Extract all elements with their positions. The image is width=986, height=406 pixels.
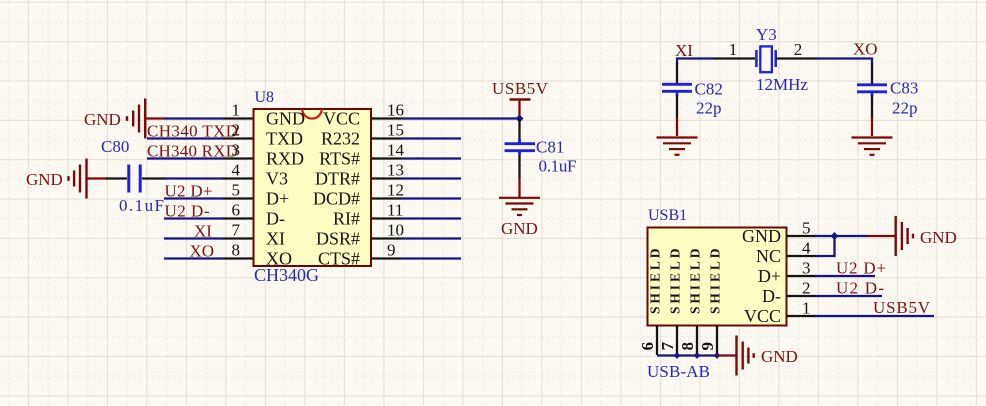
pin 9 stub of U8 <box>371 257 401 259</box>
svg-text:7: 7 <box>658 342 677 351</box>
junction at USB5V node <box>516 115 524 123</box>
svg-text:22p: 22p <box>696 99 722 118</box>
svg-text:16: 16 <box>387 101 404 120</box>
pin 8 stub of USB1 (bottom) <box>696 326 698 356</box>
svg-text:4: 4 <box>802 239 811 258</box>
svg-text:1: 1 <box>232 101 241 120</box>
svg-text:4: 4 <box>232 161 241 180</box>
svg-text:0.1uF: 0.1uF <box>539 157 577 176</box>
ground GND (C83) <box>852 138 893 155</box>
svg-text:GND: GND <box>266 109 305 129</box>
pin 9 stub of USB1 (bottom) <box>716 326 718 356</box>
svg-text:15: 15 <box>387 121 404 140</box>
svg-text:0.1uF: 0.1uF <box>119 196 164 215</box>
wire pin3 (D+) <box>815 275 875 277</box>
svg-text:2: 2 <box>232 121 241 140</box>
wire ground lead to C80 <box>87 177 108 179</box>
svg-text:GND: GND <box>84 110 121 129</box>
wire pin16 to USB5V node <box>401 117 520 119</box>
pin 1 stub of USB1 <box>787 315 817 317</box>
svg-text:XO: XO <box>266 249 292 269</box>
svg-text:U2 D+: U2 D+ <box>165 182 213 201</box>
svg-text:RXD: RXD <box>266 149 304 169</box>
svg-text:TXD: TXD <box>266 129 303 149</box>
svg-text:D+: D+ <box>758 266 781 286</box>
pin 1 of Y3 <box>714 57 755 59</box>
svg-text:DSR#: DSR# <box>316 229 360 249</box>
junction at pin9 <box>714 352 721 359</box>
svg-text:XI: XI <box>675 41 693 60</box>
pin 4 stub of USB1 <box>787 255 817 257</box>
svg-text:GND: GND <box>26 170 63 189</box>
svg-text:Y3: Y3 <box>756 25 777 44</box>
wire C82 top pin <box>676 63 678 84</box>
wire ground lead (C83) <box>871 117 873 136</box>
svg-text:R232: R232 <box>321 129 360 149</box>
wire pin8 net <box>164 257 224 259</box>
svg-text:CTS#: CTS# <box>318 249 360 269</box>
svg-text:V3: V3 <box>266 169 288 189</box>
svg-text:C81: C81 <box>536 138 564 157</box>
connector USB1 body <box>648 228 787 326</box>
capacitor C80 <box>129 165 140 193</box>
wire XI corner vertical <box>676 58 678 65</box>
wire XO corner vertical <box>871 58 873 65</box>
svg-text:C80: C80 <box>101 137 129 156</box>
svg-text:VCC: VCC <box>323 109 360 129</box>
wire C80 left pin <box>106 177 127 179</box>
svg-text:5: 5 <box>232 181 241 200</box>
pin numbers 16-9 (right of U8) <box>387 101 405 260</box>
U8 right pin names <box>313 109 360 269</box>
svg-text:7: 7 <box>232 221 241 240</box>
wire ground lead (shield) <box>717 354 736 356</box>
ground GND (C82) <box>657 138 698 155</box>
wire pin4 horizontal <box>815 255 836 257</box>
wire node to C81 <box>518 119 520 140</box>
svg-text:SHIELD: SHIELD <box>668 246 683 314</box>
wire C83 to ground <box>871 96 873 119</box>
wire pin11 <box>401 217 461 219</box>
svg-text:DTR#: DTR# <box>315 169 360 189</box>
svg-text:1: 1 <box>802 299 811 318</box>
USB1 right pin names <box>742 226 781 326</box>
wire C81 to ground <box>518 155 520 178</box>
svg-text:3: 3 <box>802 259 811 278</box>
wire pin3 net <box>147 157 224 159</box>
svg-text:D+: D+ <box>266 189 289 209</box>
wire pin2 net <box>147 137 224 139</box>
svg-text:GND: GND <box>761 347 798 366</box>
svg-text:13: 13 <box>387 161 404 180</box>
pin 2 stub of U8 <box>224 137 254 139</box>
ground GND (shield) <box>737 336 754 376</box>
power port USB5V bar <box>510 98 531 101</box>
pin 1 stub of U8 <box>224 117 254 119</box>
svg-text:XI: XI <box>266 229 285 249</box>
svg-text:GND: GND <box>920 228 957 247</box>
pin numbers 1-8 (left of U8) <box>232 101 241 260</box>
svg-text:USB5V: USB5V <box>492 79 549 98</box>
capacitor C81 <box>505 139 536 155</box>
ground GND (C80, mid-left) <box>69 159 87 199</box>
svg-text:GND: GND <box>501 219 538 238</box>
pin 4 stub of U8 <box>224 177 254 179</box>
wire ground lead to pin1 <box>145 117 166 119</box>
wire C80 right pin <box>142 177 166 179</box>
svg-text:2: 2 <box>794 40 803 59</box>
svg-text:D-: D- <box>266 209 285 229</box>
wire USB5V lead <box>518 100 520 120</box>
wire pin14 <box>401 157 461 159</box>
pin 6 stub of USB1 (bottom) <box>656 326 658 356</box>
svg-text:VCC: VCC <box>744 306 781 326</box>
wire pin12 <box>401 197 461 199</box>
IC U8 body <box>254 109 372 266</box>
svg-text:11: 11 <box>387 201 403 220</box>
svg-text:12: 12 <box>387 181 404 200</box>
svg-text:NC: NC <box>756 246 781 266</box>
pin 12 stub of U8 <box>371 197 401 199</box>
wire pin1 net <box>165 117 224 119</box>
svg-text:RTS#: RTS# <box>319 149 360 169</box>
svg-text:GND: GND <box>742 226 781 246</box>
pin numbers 5-1 (right of USB1) <box>802 219 811 318</box>
svg-text:8: 8 <box>678 342 697 351</box>
pin 13 stub of U8 <box>371 177 401 179</box>
svg-text:USB-AB: USB-AB <box>647 362 710 381</box>
svg-text:10: 10 <box>387 221 404 240</box>
svg-text:XI: XI <box>194 222 212 241</box>
svg-text:DCD#: DCD# <box>313 189 360 209</box>
wire ground lead (C81) <box>518 177 520 197</box>
pin 2 stub of USB1 <box>787 295 817 297</box>
pin 3 stub of USB1 <box>787 275 817 277</box>
svg-text:C83: C83 <box>890 79 918 98</box>
pin 2 of Y3 <box>777 57 818 59</box>
wire pin1 (VCC) <box>815 315 934 317</box>
pin 5 stub of U8 <box>224 197 254 199</box>
wire pin10 <box>401 237 461 239</box>
pin 15 stub of U8 <box>371 137 401 139</box>
red arc notch on U8 <box>302 109 322 119</box>
svg-text:C82: C82 <box>695 80 723 99</box>
wire C83 top pin <box>871 63 873 84</box>
svg-text:12MHz: 12MHz <box>756 75 808 94</box>
svg-text:SHIELD: SHIELD <box>648 246 663 314</box>
pin 8 stub of U8 <box>224 257 254 259</box>
svg-text:SHIELD: SHIELD <box>688 246 703 314</box>
wire pin5 to ground <box>815 235 868 237</box>
wire pin6 net <box>164 217 224 219</box>
svg-text:9: 9 <box>387 241 396 260</box>
wire C82 to ground <box>676 95 678 118</box>
crystal Y3 <box>756 46 775 72</box>
pin 14 stub of U8 <box>371 157 401 159</box>
wire ground lead (C82) <box>676 117 678 136</box>
wire ground lead (pin5) <box>867 235 895 237</box>
svg-text:8: 8 <box>232 241 241 260</box>
pin 3 stub of U8 <box>224 157 254 159</box>
pin 10 stub of U8 <box>371 237 401 239</box>
svg-text:5: 5 <box>802 219 811 238</box>
ground GND (C81) <box>499 198 540 215</box>
svg-text:6: 6 <box>232 201 241 220</box>
svg-text:22p: 22p <box>892 99 918 118</box>
wire pin4 vertical to node <box>833 235 835 257</box>
svg-text:9: 9 <box>698 342 717 351</box>
svg-text:USB5V: USB5V <box>873 298 931 317</box>
svg-text:6: 6 <box>638 342 657 351</box>
ground GND (USB1 pin5) <box>896 216 913 256</box>
wire pin9 <box>401 257 461 259</box>
pin 7 stub of U8 <box>224 237 254 239</box>
svg-text:SHIELD: SHIELD <box>708 246 723 314</box>
junction at pin8 <box>694 352 701 359</box>
wire pin5 net <box>164 197 224 199</box>
pin 6 stub of U8 <box>224 217 254 219</box>
pin 5 stub of USB1 <box>787 235 817 237</box>
pin 11 stub of U8 <box>371 217 401 219</box>
wire XI corner horizontal <box>676 57 715 59</box>
wire shield bus <box>657 354 718 356</box>
svg-text:U8: U8 <box>255 89 275 106</box>
svg-text:1: 1 <box>729 40 738 59</box>
pin 16 stub of U8 <box>371 117 401 119</box>
svg-text:14: 14 <box>387 141 405 160</box>
svg-text:U2 D+: U2 D+ <box>836 259 886 278</box>
svg-text:3: 3 <box>232 141 241 160</box>
ground GND (pin1 of U8, top-left) <box>127 99 145 139</box>
pin 7 stub of USB1 (bottom) <box>676 326 678 356</box>
svg-text:U2 D-: U2 D- <box>165 202 210 221</box>
junction at pin7 <box>674 352 681 359</box>
capacitor C83 <box>857 85 887 96</box>
svg-text:D-: D- <box>762 286 781 306</box>
svg-text:XO: XO <box>190 242 215 261</box>
junction at pin5/pin4 node <box>831 232 839 240</box>
svg-text:RI#: RI# <box>333 209 360 229</box>
wire pin4 net <box>165 177 224 179</box>
svg-text:USB1: USB1 <box>648 207 687 224</box>
svg-text:2: 2 <box>802 279 811 298</box>
U8 left pin names <box>266 109 305 269</box>
wire Y3 to XO corner <box>816 57 873 59</box>
wire pin7 net <box>164 237 224 239</box>
wire pin2 (D-) <box>815 295 882 297</box>
wire pin15 <box>401 137 461 139</box>
capacitor C82 <box>662 84 692 95</box>
svg-text:XO: XO <box>853 40 878 59</box>
wire pin13 <box>401 177 461 179</box>
